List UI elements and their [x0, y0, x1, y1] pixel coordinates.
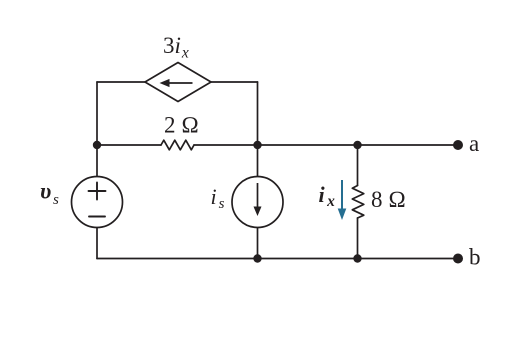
svg-text:s: s [53, 192, 59, 208]
svg-text:ix: ix [319, 182, 336, 210]
terminal dot node b [453, 254, 463, 264]
wire below is to bottom rail [257, 228, 259, 259]
wire top branch right segment [211, 81, 258, 83]
junction node dot at 8-ohm bottom [353, 254, 361, 262]
junction node dot at 8-ohm top [353, 141, 361, 149]
vs minus sign [89, 216, 105, 218]
vs plus sign [89, 183, 106, 200]
svg-text:a: a [469, 131, 479, 156]
wire right vertical below 8-ohm resistor [357, 218, 359, 259]
wire top branch left segment [97, 81, 145, 83]
junction node dot at left main node [93, 141, 101, 149]
arrow inside dependent source (points left) [160, 79, 193, 87]
wire bottom rail [97, 258, 458, 260]
wire middle vertical (diamond right down to main node) [257, 82, 259, 145]
wire main horizontal left of 2-ohm resistor [97, 144, 161, 146]
wire right vertical above 8-ohm resistor [357, 145, 359, 186]
resistor 2-ohm zigzag [161, 140, 194, 150]
blue current arrow ix (points down) [338, 180, 347, 220]
svg-text:8 Ω: 8 Ω [371, 187, 406, 212]
arrow inside is current source (points down) [254, 183, 262, 216]
svg-text:b: b [469, 245, 481, 270]
dependent current source diamond 3ix [145, 63, 211, 102]
terminal dot node a [453, 140, 463, 150]
wire left vertical (node at 2-ohm left to vs top) [96, 82, 98, 177]
svg-text:υ: υ [40, 179, 51, 204]
wire middle vertical into is top [257, 145, 259, 177]
svg-text:is: is [211, 184, 225, 212]
current source is circle [232, 177, 283, 228]
junction node dot at bottom middle [253, 254, 261, 262]
svg-text:2 Ω: 2 Ω [164, 113, 199, 138]
junction node dot at middle main node [253, 141, 261, 149]
wire below vs to bottom rail [96, 228, 98, 259]
svg-text:3ix: 3ix [163, 33, 189, 62]
resistor 8-ohm zigzag [352, 186, 364, 219]
wire main horizontal from 2-ohm resistor to terminal a [194, 144, 458, 146]
voltage source vs circle [72, 177, 123, 228]
